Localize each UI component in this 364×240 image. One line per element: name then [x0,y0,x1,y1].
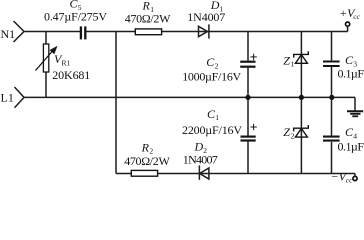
label -Vcc [331,170,354,185]
capacitor C2 polarity plus [250,54,256,60]
wire C1 bottom lead [247,142,249,174]
wire C3 bottom lead [331,67,333,97]
wire varistor bottom lead [45,72,47,97]
svg-text:D: D [194,140,204,154]
diode D1 label [187,0,225,24]
svg-text:0.47µF/275V: 0.47µF/275V [44,10,107,24]
svg-text:cc: cc [346,175,353,183]
capacitor C1 label [182,107,242,137]
svg-text:L1: L1 [1,90,14,104]
wire varistor top lead [45,32,47,45]
svg-text:20K681: 20K681 [52,68,90,82]
capacitor C2 label [182,55,241,83]
svg-text:R1: R1 [62,59,71,68]
varistor VR1 label [52,52,90,82]
terminal N1 [14,21,25,42]
capacitor C2 (electrolytic) [240,62,255,67]
wire -Vcc stub [354,174,356,177]
diode D1 [199,24,209,38]
capacitor C5 [81,26,85,39]
svg-text:470Ω/2W: 470Ω/2W [124,154,170,168]
ground [347,111,363,116]
capacitor C4 label [338,125,364,153]
resistor R1 label [125,0,171,26]
node middle rail / C2-C1 junction [245,95,250,100]
resistor R2 [131,170,157,176]
wire top rail left [24,31,80,33]
svg-text:N1: N1 [1,27,16,41]
svg-text:1N4007: 1N4007 [187,10,225,24]
wire vertical feed from C5/R1 node down to bottom rail [115,32,117,174]
capacitor C3 [323,62,340,67]
svg-text:0.1µF: 0.1µF [338,67,364,81]
svg-text:cc: cc [353,12,360,21]
capacitor C4 [323,137,340,141]
wire C1 top lead [247,97,249,135]
terminal -Vcc [353,176,357,180]
zener Z1 label [283,53,294,68]
node middle rail / Z1-Z2 junction [299,95,304,100]
capacitor C1 (electrolytic) [241,137,256,141]
zener Z1 [294,51,309,63]
svg-text:1: 1 [291,60,295,69]
svg-text:Z: Z [283,53,290,67]
wire middle common rail [24,96,355,98]
wire bottom rail [116,173,355,175]
node middle rail / C3-C4 junction [329,95,334,100]
svg-text:1: 1 [215,113,219,122]
wire C2 top lead [247,32,249,61]
svg-text:2: 2 [291,132,295,141]
svg-text:Z: Z [283,125,290,139]
zener Z2 [294,125,309,137]
varistor VR1 body [36,44,58,72]
svg-text:470Ω/2W: 470Ω/2W [125,12,171,26]
svg-text:1N4007: 1N4007 [183,152,218,166]
terminal L1 [15,87,25,108]
wire ground stub [354,97,356,110]
diode D2 label [183,140,218,167]
wire C4 bottom lead [331,142,333,174]
wire top rail right of C5 [86,31,347,33]
diode D2 [199,165,209,179]
resistor R2 label [124,140,170,168]
svg-text:0.1µF: 0.1µF [338,140,364,154]
label +Vcc [339,6,361,21]
wire Z1 branch [300,32,302,98]
svg-text:R: R [141,140,150,154]
capacitor C1 polarity plus [250,124,256,130]
svg-text:1000µF/16V: 1000µF/16V [182,69,241,83]
capacitor C3 label [338,53,364,80]
terminal +Vcc [346,22,350,26]
wire C2 bottom lead [247,68,249,98]
zener Z2 label [283,125,294,140]
wire Z2 branch [300,97,302,173]
wire +Vcc stub [347,26,349,31]
resistor R1 [135,29,161,35]
wire C4 top lead [331,97,333,135]
wire C3 top lead [331,32,333,61]
svg-text:2200µF/16V: 2200µF/16V [182,123,242,137]
capacitor C5 label [44,0,107,24]
